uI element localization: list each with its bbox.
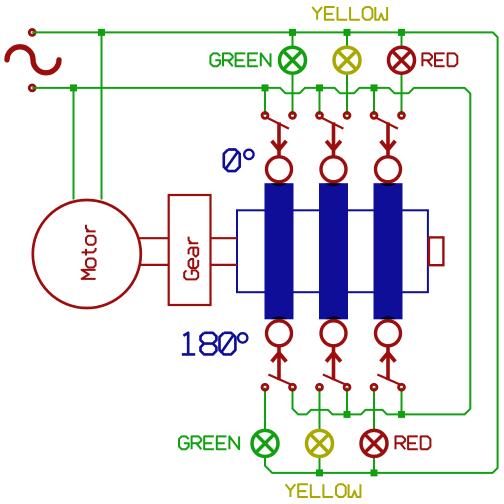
junction on top bus at lamp H2 bbox=[344, 29, 351, 36]
wire mid bus to switch S1 left terminal bbox=[264, 88, 266, 115]
lamp H5 YELLOW bottom bbox=[307, 430, 333, 456]
cam switch S6 bbox=[371, 321, 404, 390]
lamp H2 YELLOW top bbox=[334, 47, 360, 73]
coupling gear to camshaft bbox=[211, 238, 238, 265]
label RED top bbox=[422, 53, 457, 66]
terminal pin 2 of G1 bbox=[29, 85, 35, 91]
wire stub top bus to lamp H1 bbox=[292, 32, 294, 46]
cam 1 bbox=[265, 183, 294, 319]
junction on bottom lamp bus at H5 bbox=[316, 469, 323, 476]
wire switch S5 right terminal to bottom switch bus bbox=[346, 388, 348, 415]
terminal pin 1 of G1 bbox=[29, 30, 35, 36]
label GREEN bottom bbox=[179, 436, 239, 449]
cam switch S5 bbox=[317, 321, 350, 390]
cam switch S3 bbox=[371, 113, 404, 182]
wire switch S6 right terminal to bottom switch bus bbox=[401, 388, 403, 415]
gearbox bbox=[169, 195, 211, 305]
camshaft bbox=[237, 210, 428, 292]
lamp H1 GREEN top bbox=[280, 47, 306, 73]
wire lamp H6 to bottom lamp bus bbox=[373, 458, 375, 473]
junction on bottom switch bus at S5 bbox=[344, 411, 351, 418]
wire switch S5 left terminal to lamp H5 bbox=[319, 388, 321, 430]
wire switch S4 left terminal to lamp H4 bbox=[264, 388, 266, 430]
wire stub top bus to lamp H2 bbox=[346, 32, 348, 46]
junction on top bus at motor feed bbox=[98, 29, 105, 36]
label YELLOW top bbox=[312, 7, 387, 20]
junction on mid bus at switch S2 bbox=[316, 84, 323, 91]
wire switch S6 left terminal to lamp H6 bbox=[373, 388, 375, 430]
wire net N feed to motor from mid bus bbox=[73, 88, 75, 200]
wire mid bus to switch S2 left terminal bbox=[319, 88, 321, 115]
lamp H4 GREEN bottom bbox=[252, 430, 278, 456]
junction on top bus at lamp H3 bbox=[398, 29, 405, 36]
wire lamp H3 to switch S3 right terminal bbox=[401, 74, 403, 115]
wire lamp H1 to switch S1 right terminal bbox=[292, 74, 294, 115]
cam switch S2 bbox=[317, 113, 350, 182]
junction on top bus at lamp H1 bbox=[289, 29, 296, 36]
wire stub top bus to lamp H3 bbox=[401, 32, 403, 46]
cam 3 bbox=[374, 183, 403, 319]
shaft end stub bbox=[429, 237, 444, 265]
junction on mid bus at switch S1 bbox=[262, 84, 269, 91]
cam switch S1 bbox=[262, 113, 295, 182]
coupling motor to gear bbox=[139, 238, 169, 265]
wire lamp H2 to switch S2 right terminal bbox=[346, 74, 348, 115]
wire net N feed to motor from top bus bbox=[101, 32, 103, 199]
wire lamp H5 to bottom lamp bus bbox=[319, 458, 321, 473]
cam switch S4 bbox=[262, 321, 295, 390]
cam 2 bbox=[319, 183, 348, 319]
label Motor bbox=[82, 225, 96, 279]
label 0 degrees bbox=[224, 150, 240, 172]
motor M1 bbox=[33, 200, 141, 308]
label Gear bbox=[184, 237, 198, 280]
label 180 degrees bbox=[182, 333, 236, 355]
wire net N2 mid bus with crossing dips and right side down to bottom switch bus bbox=[32, 88, 470, 415]
lamp H6 RED bottom bbox=[361, 430, 387, 456]
junction on bottom switch bus at S6 bbox=[398, 411, 405, 418]
junction on mid bus at motor feed bbox=[70, 84, 77, 91]
label YELLOW bottom bbox=[286, 484, 361, 497]
label GREEN top bbox=[210, 53, 270, 66]
junction on mid bus at switch S3 bbox=[371, 84, 378, 91]
AC source G1 bbox=[7, 47, 59, 73]
wire mid bus to switch S3 left terminal bbox=[373, 88, 375, 115]
junction on bottom lamp bus at H6 bbox=[371, 469, 378, 476]
lamp H3 RED top bbox=[389, 47, 415, 73]
follower-cam overlap marks bbox=[271, 183, 396, 319]
label RED bottom bbox=[396, 436, 431, 449]
